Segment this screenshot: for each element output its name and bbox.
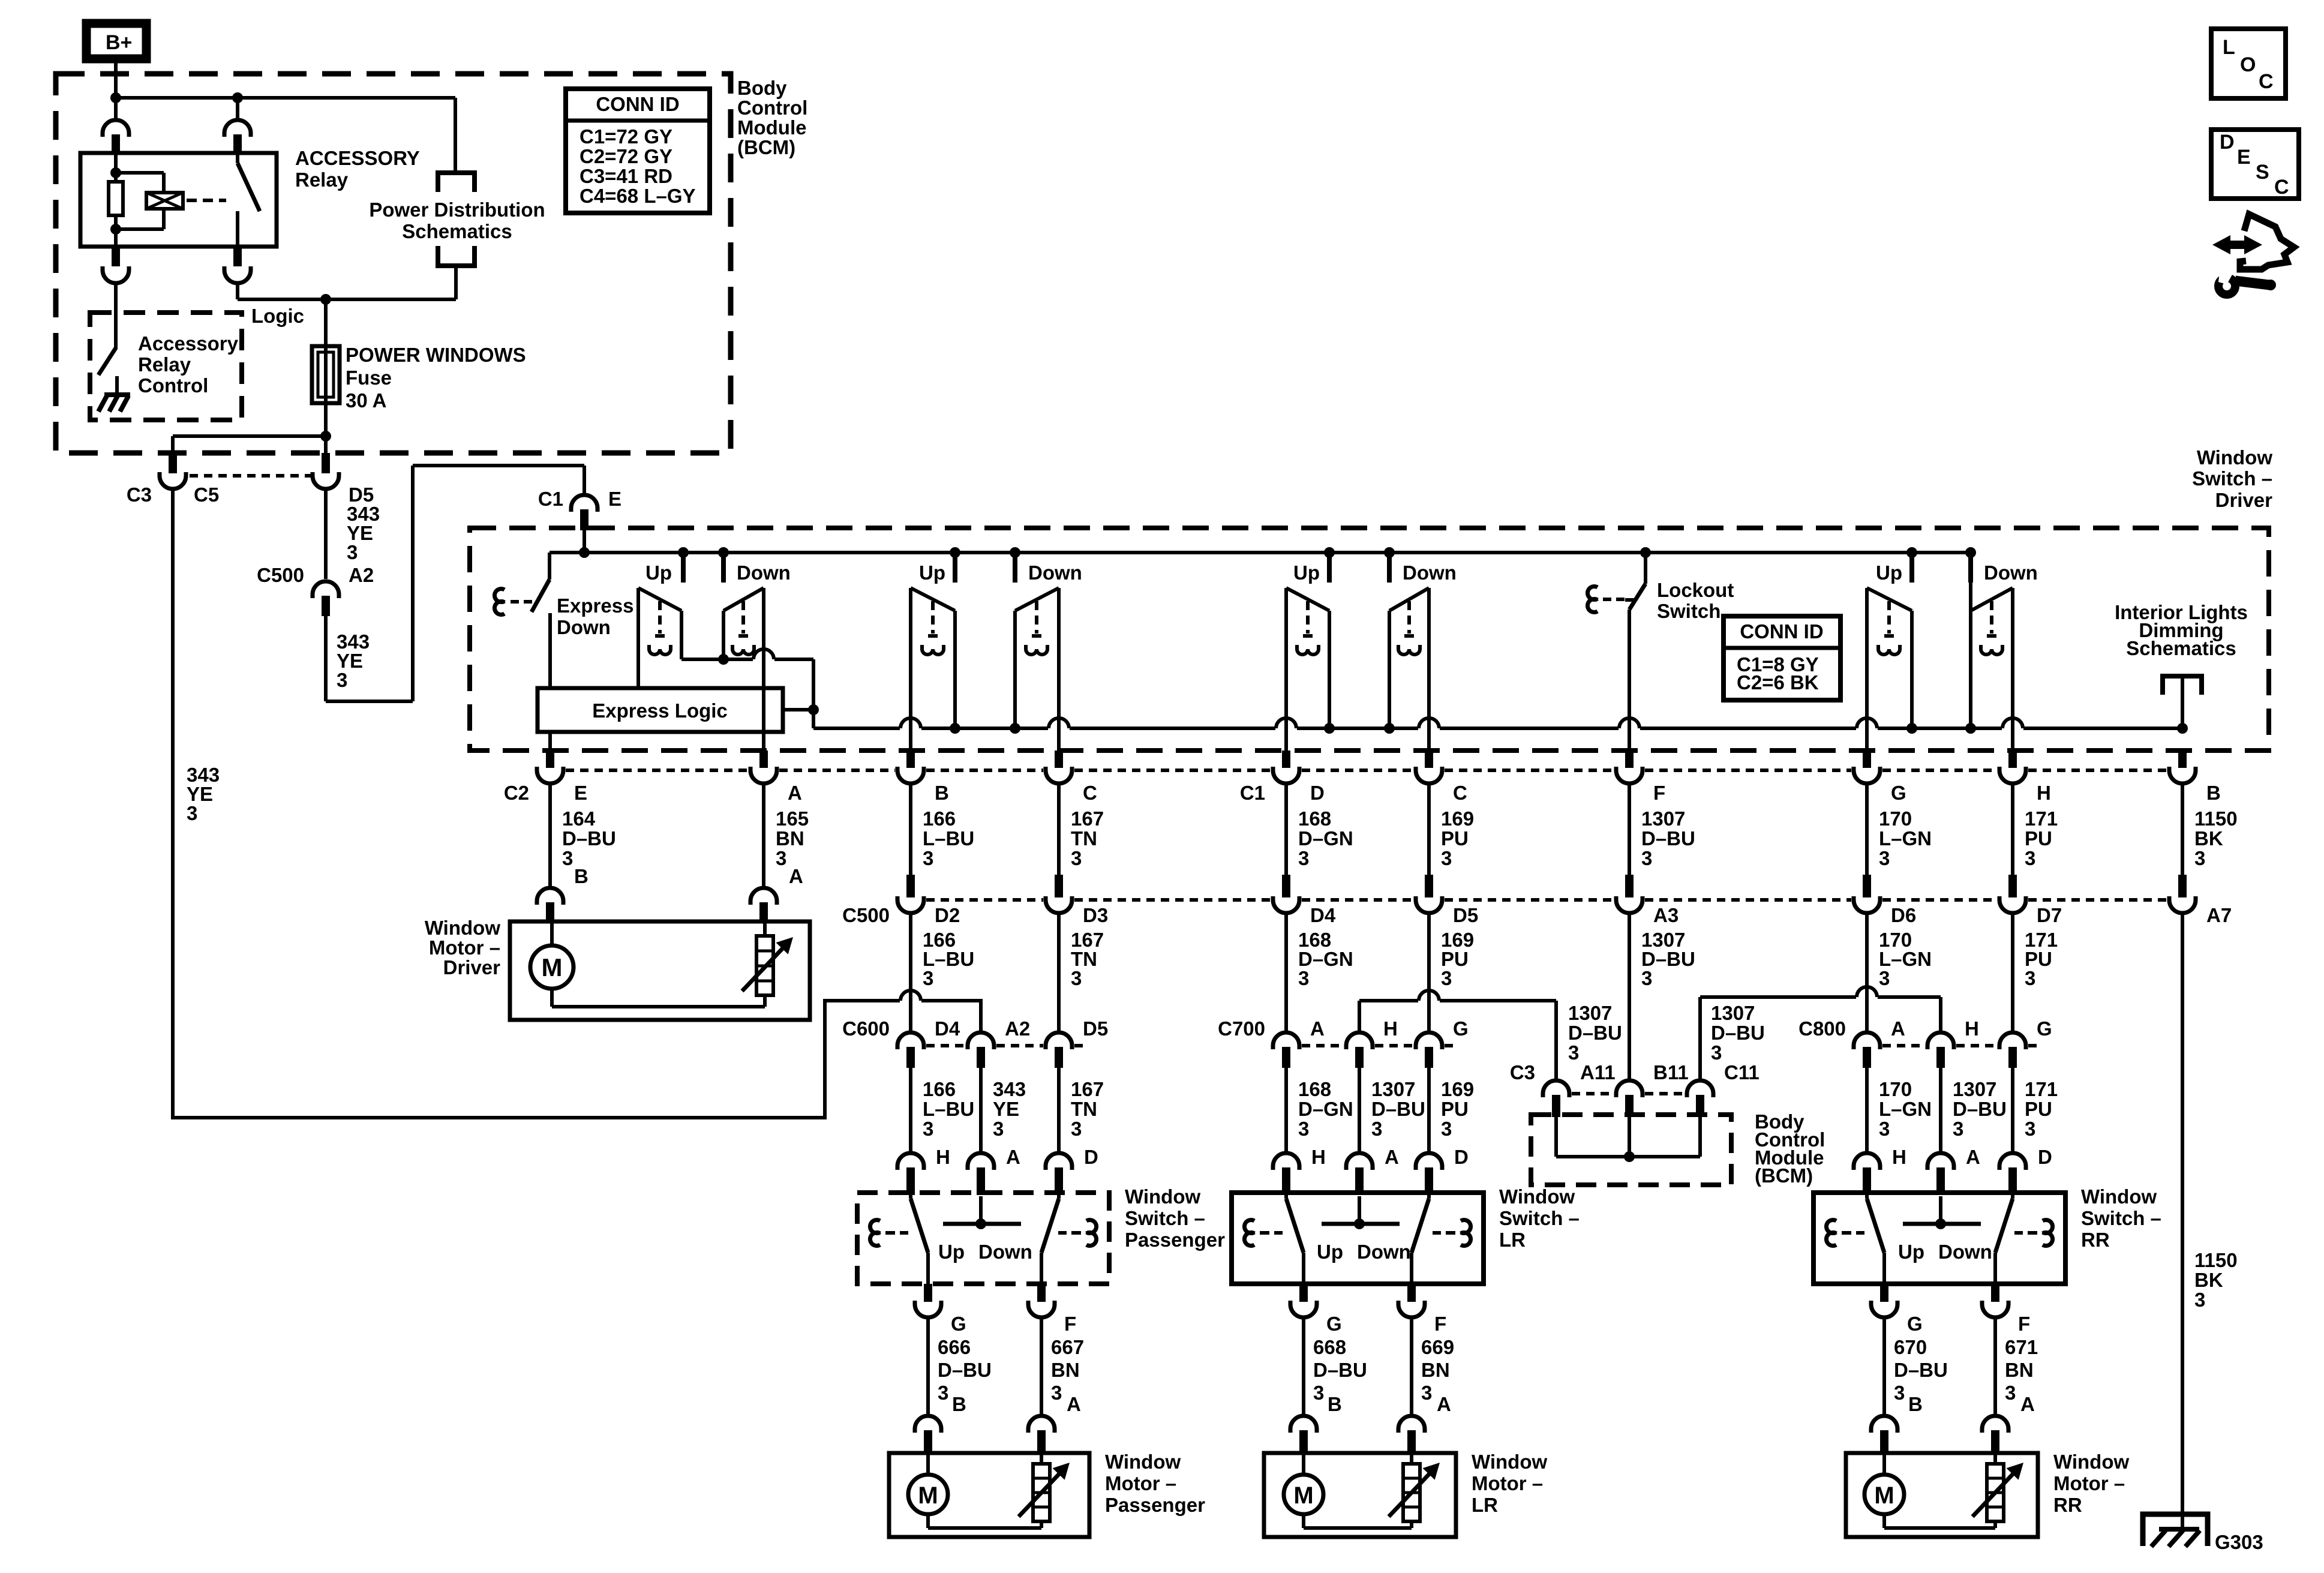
svg-text:C1: C1 bbox=[1240, 782, 1265, 804]
svg-text:D4: D4 bbox=[935, 1017, 960, 1040]
svg-text:BN: BN bbox=[1051, 1359, 1080, 1381]
position sensor resistor bbox=[1033, 1464, 1050, 1521]
express feed to low bus bbox=[812, 710, 815, 728]
connector C2row pin A x1273 bbox=[759, 751, 768, 768]
svg-text:3: 3 bbox=[1071, 1118, 1082, 1140]
switch blade up bbox=[1284, 1195, 1288, 1199]
svg-text:3: 3 bbox=[2194, 847, 2205, 869]
svg-text:166: 166 bbox=[923, 807, 956, 830]
svg-text:D: D bbox=[2038, 1146, 2052, 1168]
svg-text:Body: Body bbox=[737, 77, 787, 99]
svg-text:RR: RR bbox=[2081, 1229, 2110, 1251]
junction B+ bus left bbox=[110, 92, 121, 103]
svg-text:3: 3 bbox=[993, 1118, 1004, 1140]
svg-text:Up: Up bbox=[938, 1241, 965, 1263]
accessory relay box bbox=[80, 153, 277, 247]
svg-text:B: B bbox=[2206, 782, 2221, 804]
sensor arrow driver bbox=[742, 943, 788, 991]
svg-text:E: E bbox=[2237, 146, 2251, 169]
wire D2 to C600 D4 bbox=[909, 913, 912, 1032]
window motor box RR bbox=[1846, 1453, 2038, 1537]
svg-text:H: H bbox=[1311, 1146, 1326, 1168]
sensor arrow bbox=[1972, 1469, 2018, 1517]
svg-text:B: B bbox=[1328, 1393, 1342, 1415]
svg-text:B+: B+ bbox=[106, 31, 132, 54]
svg-text:G: G bbox=[1891, 782, 1906, 804]
svg-text:3: 3 bbox=[1879, 847, 1890, 869]
express logic output stub bbox=[783, 708, 813, 712]
relay coil branch wire bbox=[114, 153, 118, 182]
wire M bottom bbox=[926, 1514, 930, 1528]
wire 1307 to switch pin A bbox=[1939, 1068, 1942, 1153]
connector switch row pin A x3235 bbox=[1927, 1153, 1954, 1170]
sensor arrow bbox=[1019, 1469, 1064, 1517]
svg-text:Window: Window bbox=[1125, 1185, 1200, 1208]
svg-text:Motor –: Motor – bbox=[2053, 1472, 2125, 1494]
svg-text:666: 666 bbox=[938, 1336, 971, 1358]
passenger up feed stub bbox=[950, 547, 960, 558]
svg-text:C3=41 RD: C3=41 RD bbox=[580, 165, 672, 187]
bus from B+ bbox=[116, 96, 455, 100]
sensor arrow bbox=[1389, 1469, 1434, 1517]
svg-text:3: 3 bbox=[2025, 967, 2035, 989]
svg-text:3: 3 bbox=[923, 1118, 933, 1140]
svg-text:A: A bbox=[1006, 1146, 1020, 1168]
wire 343 to E jog bbox=[326, 700, 413, 703]
svg-text:1150: 1150 bbox=[2194, 807, 2238, 830]
connector switch row pin H x3112 bbox=[1854, 1153, 1880, 1170]
svg-text:3: 3 bbox=[1298, 847, 1309, 869]
svg-text:Down: Down bbox=[1403, 562, 1457, 584]
connector relay pin 87 bbox=[233, 247, 242, 266]
connector switch row pin H x2144 bbox=[1273, 1153, 1299, 1170]
coil parallel wire upper bbox=[162, 173, 166, 193]
svg-text:A7: A7 bbox=[2206, 904, 2232, 926]
svg-text:TN: TN bbox=[1071, 827, 1097, 849]
svg-text:Down: Down bbox=[1028, 562, 1082, 584]
junction coil bottom bbox=[110, 224, 121, 235]
svg-text:B: B bbox=[1908, 1393, 1923, 1415]
switch common bar bbox=[1939, 1196, 1942, 1224]
svg-text:H: H bbox=[936, 1146, 950, 1168]
svg-text:A: A bbox=[2020, 1393, 2035, 1415]
svg-text:1307: 1307 bbox=[1641, 807, 1685, 830]
motor M RR bbox=[1864, 1475, 1904, 1514]
svg-text:1150: 1150 bbox=[2194, 1249, 2238, 1271]
svg-text:C700: C700 bbox=[1218, 1017, 1265, 1040]
wire 167 to switch pin D bbox=[1057, 1068, 1061, 1153]
wire to relay coil connector bbox=[114, 98, 118, 120]
svg-text:168: 168 bbox=[1298, 807, 1331, 830]
svg-text:3: 3 bbox=[1879, 1118, 1890, 1140]
window motor box LR bbox=[1264, 1453, 1456, 1537]
svg-text:PU: PU bbox=[2025, 1098, 2052, 1120]
wire B+ to bus bbox=[114, 61, 118, 98]
coil parallel bottom wire bbox=[116, 227, 164, 231]
svg-text:L–BU: L–BU bbox=[923, 827, 974, 849]
svg-text:3: 3 bbox=[1441, 847, 1452, 869]
svg-text:G: G bbox=[1907, 1313, 1923, 1335]
wire fuse bottom bbox=[324, 403, 328, 454]
svg-text:3: 3 bbox=[923, 847, 933, 869]
svg-text:BK: BK bbox=[2194, 827, 2223, 849]
wire sensor top bbox=[763, 921, 767, 936]
svg-text:G: G bbox=[1326, 1313, 1342, 1335]
connector C500 pin A3 bbox=[1625, 875, 1634, 897]
svg-text:LR: LR bbox=[1499, 1229, 1526, 1251]
svg-text:ACCESSORY: ACCESSORY bbox=[295, 147, 420, 169]
switch common bar bbox=[979, 1196, 983, 1224]
svg-text:BN: BN bbox=[2005, 1359, 2034, 1381]
svg-text:H: H bbox=[1892, 1146, 1906, 1168]
svg-text:3: 3 bbox=[1071, 967, 1082, 989]
connector row BCM C3 dotted bbox=[1572, 1092, 1614, 1095]
svg-text:A2: A2 bbox=[1005, 1017, 1030, 1040]
junction fuse feed bbox=[320, 294, 331, 305]
wire A7 to ground G303 bbox=[2181, 913, 2184, 1530]
svg-text:3: 3 bbox=[923, 967, 933, 989]
svg-text:O: O bbox=[2240, 53, 2256, 76]
switch LR control up bbox=[1286, 588, 1329, 611]
connector switch row pin D x3355 bbox=[1999, 1153, 2026, 1170]
ground chassis accessory relay control bbox=[104, 392, 130, 397]
lockout switch bbox=[1640, 547, 1651, 558]
svg-text:Down: Down bbox=[1984, 562, 2038, 584]
wire interior lights to bus bbox=[2181, 679, 2184, 728]
svg-text:667: 667 bbox=[1051, 1336, 1084, 1358]
relay switch pivot stub bbox=[236, 153, 239, 163]
svg-text:D–GN: D–GN bbox=[1298, 1098, 1353, 1120]
motor M Passenger bbox=[908, 1475, 948, 1514]
wire 343 YE bottom run to A2 bbox=[173, 1001, 900, 1118]
svg-text:C600: C600 bbox=[842, 1017, 890, 1040]
junction E bus bbox=[579, 547, 590, 558]
svg-text:3: 3 bbox=[1641, 847, 1652, 869]
svg-text:A: A bbox=[1437, 1393, 1451, 1415]
svg-text:F: F bbox=[1064, 1313, 1076, 1335]
svg-text:Down: Down bbox=[1357, 1241, 1411, 1263]
harness mark right bbox=[1461, 1220, 1471, 1233]
off-page symbol power distribution top bbox=[438, 173, 475, 192]
wire sensor top bbox=[1040, 1453, 1043, 1464]
connector C3 pin bbox=[169, 453, 177, 473]
svg-text:170: 170 bbox=[1879, 807, 1912, 830]
svg-text:C: C bbox=[1453, 782, 1467, 804]
svg-text:D2: D2 bbox=[935, 904, 960, 926]
svg-text:B: B bbox=[935, 782, 949, 804]
ground stub accessory relay control bbox=[115, 376, 119, 396]
connector BCM pin C11 bbox=[1687, 1080, 1713, 1097]
wire M bottom bbox=[1882, 1514, 1886, 1528]
svg-text:Window: Window bbox=[2053, 1451, 2129, 1473]
wire 169 to switch pin D bbox=[1427, 1068, 1431, 1153]
svg-text:D–BU: D–BU bbox=[1641, 827, 1695, 849]
svg-text:Driver: Driver bbox=[2215, 489, 2273, 511]
connector switch out F bbox=[1028, 1301, 1055, 1317]
wire relay 85 to accessory relay control bbox=[114, 283, 118, 349]
window switch box LR bbox=[1232, 1193, 1484, 1284]
wire 166 to switch pin H bbox=[909, 1068, 912, 1153]
connector switch out G bbox=[1871, 1301, 1897, 1317]
svg-text:G: G bbox=[951, 1313, 966, 1335]
wire x3638 C2row to C500 bbox=[2181, 784, 2184, 876]
svg-text:166: 166 bbox=[923, 1078, 956, 1100]
svg-text:D5: D5 bbox=[1453, 904, 1478, 926]
switch RR control up bbox=[1867, 588, 1912, 611]
window switch driver dashed box bbox=[470, 528, 2269, 751]
svg-text:D5: D5 bbox=[1083, 1017, 1108, 1040]
svg-text:3: 3 bbox=[337, 669, 347, 691]
connector row C500 dotted bbox=[926, 898, 1043, 902]
wire D3 to C600 D5 bbox=[1057, 913, 1061, 1032]
svg-text:Passenger: Passenger bbox=[1105, 1494, 1205, 1516]
svg-text:C500: C500 bbox=[842, 904, 890, 926]
RR up feed stub bbox=[1906, 547, 1917, 558]
harness mark left bbox=[870, 1220, 880, 1233]
svg-text:(BCM): (BCM) bbox=[737, 136, 795, 158]
svg-text:C2=72 GY: C2=72 GY bbox=[580, 145, 672, 167]
svg-text:Up: Up bbox=[645, 562, 672, 584]
low bus junctions bbox=[950, 723, 960, 734]
svg-text:C: C bbox=[2274, 176, 2289, 199]
svg-text:1307: 1307 bbox=[1711, 1002, 1755, 1024]
svg-text:3: 3 bbox=[2025, 1118, 2035, 1140]
svg-text:Fuse: Fuse bbox=[346, 367, 392, 389]
coil parallel wire lower bbox=[162, 209, 166, 229]
svg-text:CONN ID: CONN ID bbox=[596, 93, 679, 115]
svg-text:E: E bbox=[608, 488, 621, 510]
svg-text:PU: PU bbox=[1441, 1098, 1469, 1120]
accessory relay control dashed box bbox=[90, 313, 242, 420]
feed bus in driver switch bbox=[550, 551, 1971, 554]
connector BCM pin A11 bbox=[1543, 1080, 1569, 1097]
hop over 166 wire bbox=[900, 990, 921, 1001]
switch blade down bbox=[1057, 1195, 1061, 1199]
harness mark left bbox=[1826, 1220, 1836, 1233]
connector BCM pin B11 bbox=[1616, 1080, 1643, 1097]
wire x1518 C2row to C500 bbox=[909, 784, 912, 876]
wire E to motor B bbox=[548, 784, 552, 888]
wire x1765 C2row to C500 bbox=[1057, 784, 1061, 876]
connector C2row pin E x917 bbox=[546, 751, 554, 768]
svg-text:Switch: Switch bbox=[1657, 600, 1721, 622]
svg-text:30 A: 30 A bbox=[346, 389, 386, 412]
wire LR up output bbox=[1284, 588, 1288, 754]
svg-text:C4=68 L–GY: C4=68 L–GY bbox=[580, 185, 696, 207]
svg-text:Switch –: Switch – bbox=[1499, 1207, 1580, 1229]
connector C500 pin D4 bbox=[1282, 875, 1290, 897]
svg-text:671: 671 bbox=[2005, 1336, 2038, 1358]
svg-text:Window: Window bbox=[1105, 1451, 1181, 1473]
window motor driver box bbox=[510, 921, 810, 1020]
svg-text:669: 669 bbox=[1421, 1336, 1454, 1358]
wire 343 to switch pin A bbox=[979, 1068, 983, 1153]
svg-text:M: M bbox=[542, 953, 563, 981]
harness mark left bbox=[1244, 1220, 1254, 1233]
junction below fuse bbox=[320, 431, 331, 442]
wire up1 inner to bus bbox=[953, 611, 957, 728]
svg-text:D: D bbox=[2220, 131, 2235, 154]
svg-text:3: 3 bbox=[347, 541, 358, 563]
connector row C700 dotted bbox=[1302, 1044, 1344, 1047]
svg-text:C3: C3 bbox=[127, 484, 152, 506]
svg-text:E: E bbox=[574, 782, 587, 804]
svg-text:Up: Up bbox=[919, 562, 945, 584]
switch blade up bbox=[909, 1195, 912, 1199]
wire passenger down output bbox=[1057, 588, 1061, 754]
svg-text:M: M bbox=[1874, 1482, 1894, 1509]
battery feed B+ bbox=[86, 23, 146, 59]
svg-text:F: F bbox=[1653, 782, 1665, 804]
svg-text:Module: Module bbox=[737, 116, 806, 139]
wire 343 YE below C500 bbox=[324, 616, 328, 701]
svg-text:A3: A3 bbox=[1653, 904, 1679, 926]
svg-text:Window: Window bbox=[2197, 446, 2272, 469]
wire branch to C3 bbox=[173, 434, 326, 438]
svg-text:PU: PU bbox=[1441, 827, 1469, 849]
wire 343 YE from D5 bbox=[324, 489, 328, 579]
wire into motor M bbox=[550, 921, 554, 945]
svg-text:Switch –: Switch – bbox=[1125, 1207, 1205, 1229]
connector C2row pin H x3355 bbox=[2008, 751, 2017, 768]
relay switch contact bbox=[236, 211, 239, 247]
switch LR control down bbox=[1389, 588, 1429, 611]
connector C600 pin D4 bbox=[897, 1032, 924, 1049]
svg-text:F: F bbox=[1434, 1313, 1446, 1335]
connector C700 pin H bbox=[1346, 1032, 1373, 1049]
wire 171 to switch pin D bbox=[2011, 1068, 2014, 1153]
BCM2 internal wires bbox=[1554, 1117, 1558, 1157]
connector motor A bbox=[1028, 1416, 1055, 1433]
wire to power distribution bottom bbox=[454, 268, 458, 299]
svg-text:Lockout: Lockout bbox=[1657, 579, 1734, 601]
connector C700 pin A bbox=[1273, 1032, 1299, 1049]
wire x2382 C2row to C500 bbox=[1427, 784, 1431, 876]
wire M to bottom bbox=[550, 989, 554, 1007]
ground G303 bbox=[2143, 1514, 2208, 1546]
wire below resistor bbox=[114, 215, 118, 247]
svg-text:169: 169 bbox=[1441, 807, 1474, 830]
svg-text:RR: RR bbox=[2053, 1494, 2082, 1516]
wire driver pair jumper bbox=[681, 658, 753, 661]
svg-text:D–BU: D–BU bbox=[1568, 1022, 1622, 1044]
svg-text:C3: C3 bbox=[1510, 1061, 1535, 1083]
wire M bottom bbox=[1302, 1514, 1305, 1528]
wire relay output horizontal bbox=[238, 298, 456, 301]
switch passenger control up bbox=[911, 588, 955, 611]
wire to relay switch connector bbox=[236, 98, 239, 120]
svg-text:A11: A11 bbox=[1580, 1061, 1616, 1083]
svg-text:D6: D6 bbox=[1891, 904, 1916, 926]
svg-text:D–BU: D–BU bbox=[1711, 1022, 1765, 1044]
wire 343 YE from C3 long left bbox=[171, 487, 175, 1119]
svg-text:D3: D3 bbox=[1083, 904, 1108, 926]
svg-text:D–GN: D–GN bbox=[1298, 827, 1353, 849]
svg-text:170: 170 bbox=[1879, 1078, 1912, 1100]
svg-text:C500: C500 bbox=[257, 564, 304, 586]
svg-text:1307: 1307 bbox=[1371, 1078, 1415, 1100]
svg-text:D–BU: D–BU bbox=[1953, 1098, 2007, 1120]
svg-text:H: H bbox=[2037, 782, 2051, 804]
svg-text:CONN ID: CONN ID bbox=[1740, 620, 1823, 643]
wire passenger up output bbox=[909, 588, 912, 754]
svg-text:Express Logic: Express Logic bbox=[592, 700, 728, 722]
svg-text:C800: C800 bbox=[1798, 1017, 1846, 1040]
svg-text:D–BU: D–BU bbox=[1371, 1098, 1425, 1120]
svg-text:BK: BK bbox=[2194, 1269, 2223, 1291]
connector C600 pin A2 bbox=[968, 1032, 994, 1049]
svg-text:3: 3 bbox=[1711, 1041, 1722, 1064]
switch driver window up bbox=[638, 588, 681, 611]
express logic box bbox=[538, 688, 783, 732]
svg-text:D–BU: D–BU bbox=[562, 827, 616, 849]
svg-text:A: A bbox=[1310, 1017, 1325, 1040]
fuse POWER WINDOWS 30A bbox=[324, 346, 328, 403]
svg-text:Up: Up bbox=[1293, 562, 1320, 584]
position sensor resistor bbox=[1403, 1464, 1420, 1521]
svg-text:A: A bbox=[1067, 1393, 1081, 1415]
connector switch out F bbox=[1982, 1301, 2008, 1317]
svg-text:C1: C1 bbox=[538, 488, 563, 510]
passenger down feed stub bbox=[1010, 547, 1020, 558]
svg-text:C5: C5 bbox=[194, 484, 219, 506]
connector C2row pin B x3638 bbox=[2178, 751, 2187, 768]
svg-text:3: 3 bbox=[2194, 1289, 2205, 1311]
svg-text:3: 3 bbox=[1071, 847, 1082, 869]
svg-text:Control: Control bbox=[138, 374, 208, 397]
svg-text:164: 164 bbox=[562, 807, 596, 830]
in-line connector C1 E bbox=[571, 495, 597, 512]
connector driver motor A bbox=[750, 888, 777, 905]
svg-text:3: 3 bbox=[1298, 967, 1309, 989]
svg-text:3: 3 bbox=[2025, 847, 2035, 869]
connector C2row pin F x2716 bbox=[1625, 751, 1634, 768]
switch blade down bbox=[2011, 1195, 2014, 1199]
wire into M bbox=[1302, 1453, 1305, 1475]
svg-text:343: 343 bbox=[993, 1078, 1026, 1100]
svg-text:Relay: Relay bbox=[295, 169, 349, 191]
wire 1307 branch C11 to C800 H bbox=[1698, 997, 1702, 1080]
DESC icon box bbox=[2211, 130, 2299, 199]
wire 1307 to switch pin A bbox=[1358, 1068, 1361, 1153]
svg-text:G303: G303 bbox=[2215, 1531, 2263, 1553]
connector relay pin 85 bbox=[112, 247, 120, 266]
wire express logic to E pin bbox=[548, 732, 552, 754]
svg-text:3: 3 bbox=[1371, 1118, 1382, 1140]
svg-text:668: 668 bbox=[1313, 1336, 1346, 1358]
wire 343 YE to C600 A2 bbox=[921, 1001, 981, 1032]
vehicle outline icon bbox=[2240, 214, 2294, 269]
switch output stubs bbox=[1880, 1284, 1888, 1302]
connector C500 pin A7 bbox=[2178, 875, 2187, 897]
svg-text:PU: PU bbox=[2025, 827, 2052, 849]
wire LR down output bbox=[1427, 588, 1431, 754]
svg-text:3: 3 bbox=[562, 847, 573, 869]
connector switch row pin D x1765 bbox=[1046, 1153, 1072, 1170]
conn id table driver switch bbox=[1724, 616, 1840, 700]
wire G to motor bbox=[1302, 1317, 1305, 1416]
svg-text:B: B bbox=[952, 1393, 966, 1415]
connector C500 pin D6 bbox=[1863, 875, 1871, 897]
connector C800 pin H bbox=[1927, 1032, 1954, 1049]
window motor box Passenger bbox=[889, 1453, 1089, 1537]
conn id table BCM bbox=[566, 89, 710, 213]
connector C2row pin B x1518 bbox=[906, 751, 915, 768]
svg-text:Control: Control bbox=[737, 97, 807, 119]
svg-text:C: C bbox=[1083, 782, 1097, 804]
svg-text:171: 171 bbox=[2025, 807, 2058, 830]
connector C800 pin G bbox=[1999, 1032, 2026, 1049]
